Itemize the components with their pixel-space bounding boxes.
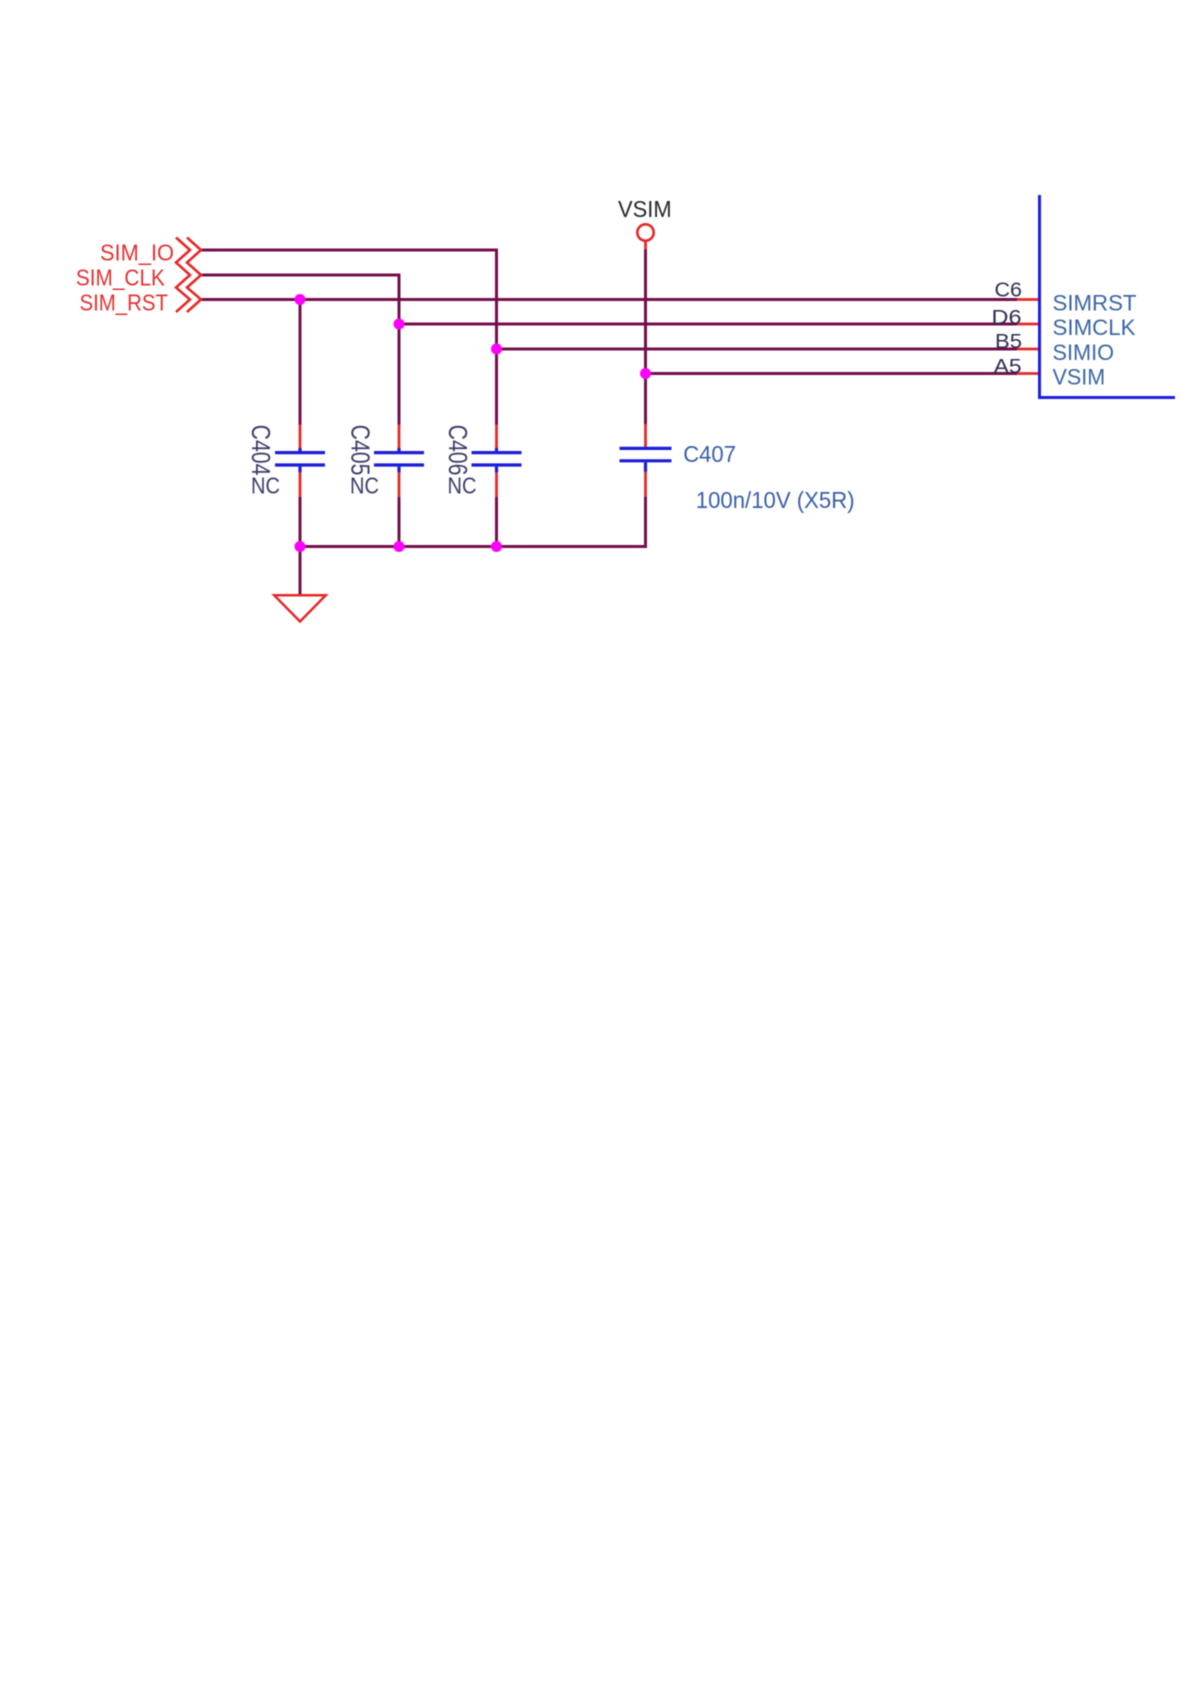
svg-text:NC: NC: [448, 472, 477, 498]
svg-text:SIM_IO: SIM_IO: [100, 240, 174, 266]
svg-text:NC: NC: [350, 472, 379, 498]
svg-text:SIMRST: SIMRST: [1053, 290, 1137, 315]
svg-text:SIM_RST: SIM_RST: [80, 290, 169, 316]
svg-text:SIMIO: SIMIO: [1053, 340, 1115, 365]
svg-text:SIMCLK: SIMCLK: [1053, 315, 1136, 340]
svg-text:C404: C404: [246, 425, 274, 476]
svg-text:VSIM: VSIM: [1053, 365, 1106, 390]
svg-text:A5: A5: [994, 356, 1022, 378]
svg-text:C406: C406: [443, 425, 471, 476]
svg-text:NC: NC: [251, 472, 280, 498]
svg-text:C407: C407: [683, 441, 736, 467]
svg-text:C405: C405: [345, 425, 373, 476]
svg-text:SIM_CLK: SIM_CLK: [76, 265, 165, 291]
svg-text:B5: B5: [995, 331, 1022, 353]
svg-text:100n/10V (X5R): 100n/10V (X5R): [696, 487, 855, 513]
svg-text:C6: C6: [995, 280, 1023, 302]
svg-text:VSIM: VSIM: [618, 196, 672, 222]
svg-text:D6: D6: [992, 307, 1022, 329]
